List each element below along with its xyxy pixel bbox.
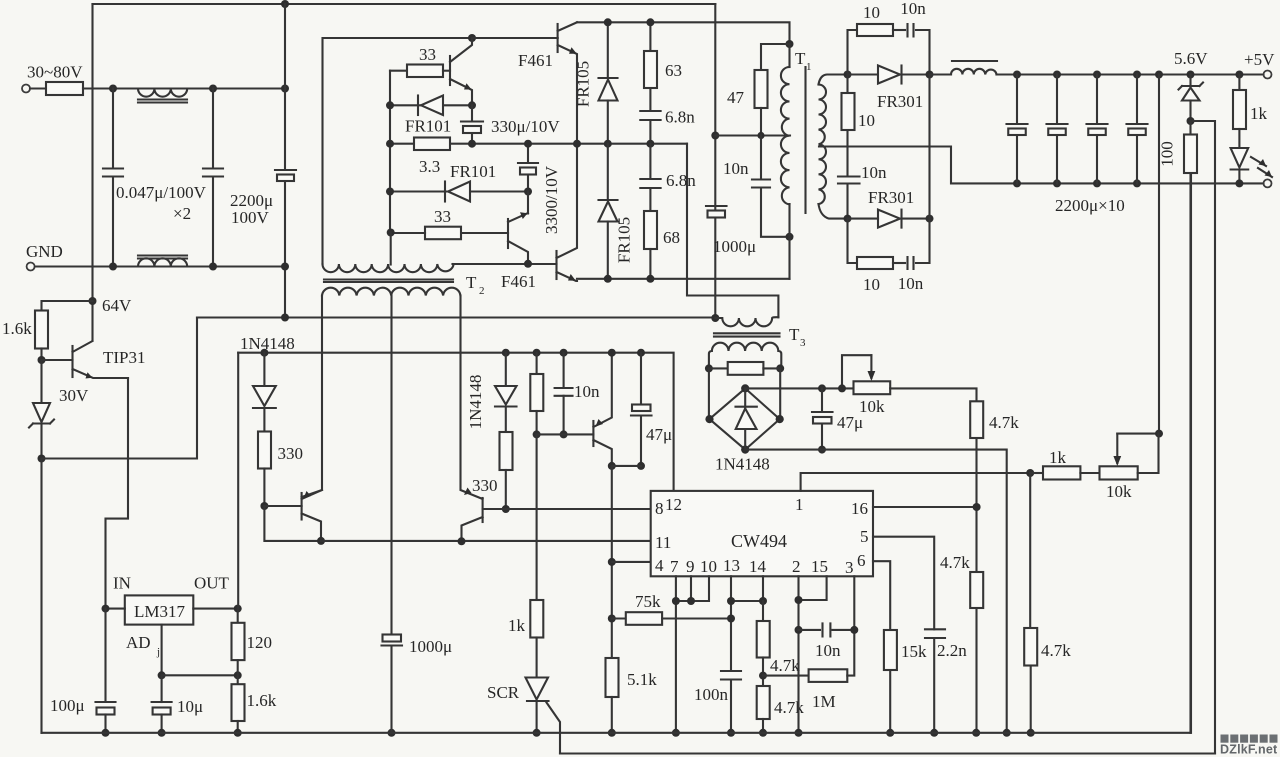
resistor 33 upper <box>390 70 407 72</box>
node pin4 tie <box>608 558 616 566</box>
transistor F461 lower <box>555 251 557 279</box>
transistor driver lower <box>508 192 528 223</box>
node pin1 / 1k <box>1026 469 1034 477</box>
svg-text:10n: 10n <box>900 0 926 18</box>
IC LM317 <box>125 595 194 624</box>
node 1M line <box>759 672 767 680</box>
svg-text:47: 47 <box>727 88 745 107</box>
wire lower rail y278.8 <box>577 278 790 280</box>
wire base line y434 <box>537 433 594 435</box>
snubber 10 + 10n bottom <box>848 219 858 263</box>
svg-text:100V: 100V <box>231 208 270 227</box>
node zener bottom <box>1187 117 1195 125</box>
svg-text:T: T <box>466 273 477 292</box>
capacitor 330u/10V <box>471 105 473 143</box>
wire primary ground line <box>197 316 716 318</box>
resistor 330 b <box>500 432 513 470</box>
svg-text:1000μ: 1000μ <box>713 237 756 256</box>
wire T2 sec right end down <box>461 296 483 500</box>
transistor PNP b <box>482 498 484 522</box>
svg-text:30~80V: 30~80V <box>27 63 83 82</box>
node PNP c collector <box>608 462 616 470</box>
transistor driver upper <box>449 56 451 85</box>
node half-bridge mid <box>573 140 581 148</box>
resistor input series <box>30 87 46 89</box>
transformer T2 core <box>324 280 453 283</box>
node 75k right <box>727 615 735 623</box>
resistor 68 <box>644 211 657 249</box>
svg-text:6: 6 <box>857 551 866 570</box>
capacitor 0.047u/100V a <box>112 89 114 267</box>
capacitor 10n primary <box>757 132 764 139</box>
svg-text:330: 330 <box>472 476 498 495</box>
wire T2 sec center down <box>390 296 392 636</box>
resistor 1k feedback <box>1030 472 1043 474</box>
wire pin8 line <box>483 508 651 510</box>
resistor 47 <box>761 44 790 70</box>
wire T1 sec center tap lead <box>819 147 1017 184</box>
svg-text:1.6k: 1.6k <box>247 691 277 710</box>
svg-text:6.8n: 6.8n <box>666 171 696 190</box>
svg-text:10n: 10n <box>815 641 841 660</box>
node rail 1000u2 <box>388 729 396 737</box>
node PNP a collector <box>317 537 325 545</box>
capacitor 100u <box>104 609 106 702</box>
svg-text:GND: GND <box>26 242 63 261</box>
svg-text:4.7k: 4.7k <box>774 698 804 717</box>
resistor 4.7k pin16 lower <box>970 572 983 608</box>
diode FR101 lower <box>390 190 528 192</box>
capacitor 2200u output x1017 <box>1013 71 1021 79</box>
node input rail x213 <box>209 85 217 93</box>
wire pin16 stub <box>873 506 977 508</box>
svg-text:10k: 10k <box>1106 482 1132 501</box>
node input rail x113 <box>109 85 117 93</box>
capacitor 2200u/100V <box>284 4 286 318</box>
svg-text:5.6V: 5.6V <box>1174 49 1208 68</box>
resistor 1.6k lower <box>232 684 245 721</box>
node input rail x285 <box>281 85 289 93</box>
svg-text:SCR: SCR <box>487 683 520 702</box>
bridge rectifier 1N4148 diamond <box>709 368 780 419</box>
node LM317 IN <box>102 605 110 613</box>
capacitor 10u <box>161 675 163 702</box>
svg-text:12: 12 <box>665 495 682 514</box>
wire 4.7k column x1030 <box>1029 473 1031 628</box>
svg-text:10μ: 10μ <box>177 697 203 716</box>
svg-text:5.1k: 5.1k <box>627 670 657 689</box>
node FR101/emitter <box>468 101 476 109</box>
transistor PNP a <box>264 505 301 507</box>
resistor 33 lower <box>425 227 461 240</box>
svg-text:1.6k: 1.6k <box>2 319 32 338</box>
svg-text:100μ: 100μ <box>50 696 85 715</box>
svg-text:FR101: FR101 <box>405 117 451 136</box>
wire pin11 line <box>321 540 651 542</box>
diode inside bridge <box>744 388 746 449</box>
capacitor 1000u <box>706 205 727 207</box>
capacitor 2.2n <box>925 629 945 638</box>
watermark <box>1221 735 1278 743</box>
node driver collector top <box>468 34 476 42</box>
svg-text:1k: 1k <box>1250 104 1268 123</box>
svg-text:2200μ×10: 2200μ×10 <box>1055 196 1125 215</box>
svg-text:+5V: +5V <box>1244 50 1275 69</box>
wire output return rail <box>1017 182 1264 184</box>
node PNP a base <box>260 502 268 510</box>
node 1N4148 b top <box>502 349 510 357</box>
wire pot A right to 4.7k column <box>890 388 976 401</box>
transformer T2 primary <box>323 264 454 272</box>
node 10n bottom <box>560 430 568 438</box>
diode FR101 upper <box>390 104 472 106</box>
node TIP31 base <box>38 356 46 364</box>
terminal input 30~80V <box>22 85 30 93</box>
svg-text:1k: 1k <box>1049 448 1067 467</box>
wire bridge top line y388.4 <box>745 387 853 389</box>
svg-text:100n: 100n <box>694 685 729 704</box>
diode 1N4148 a <box>263 353 265 386</box>
transistor TIP31 <box>42 359 73 361</box>
node x536 junction <box>533 430 541 438</box>
svg-text:1N4148: 1N4148 <box>240 334 295 353</box>
svg-text:33: 33 <box>419 45 436 64</box>
transformer T1 core <box>804 67 806 213</box>
resistor 1.6k <box>35 311 48 349</box>
node rectified bus top <box>926 71 934 79</box>
diode FR105 lower <box>607 144 609 200</box>
capacitor 3300/10V <box>527 144 529 192</box>
svg-text:10n: 10n <box>574 382 600 401</box>
diode FR105 upper <box>607 22 609 78</box>
svg-text:8: 8 <box>655 499 664 518</box>
node rail 5.1k <box>608 729 616 737</box>
svg-text:FR105: FR105 <box>574 61 593 107</box>
svg-text:4.7k: 4.7k <box>770 656 800 675</box>
SCR <box>526 678 549 700</box>
resistor 100 <box>1184 135 1197 174</box>
svg-text:14: 14 <box>749 557 767 576</box>
capacitor 100n <box>721 671 741 680</box>
node GND x285 <box>281 263 289 271</box>
node 64V <box>89 297 97 305</box>
svg-text:33: 33 <box>434 207 451 226</box>
diode 1N4148 b <box>505 353 507 386</box>
svg-text:0.047μ/100V: 0.047μ/100V <box>116 183 207 202</box>
wire zener node to SCR gate line <box>1191 121 1216 754</box>
node ADj junction <box>158 671 166 679</box>
svg-text:5: 5 <box>860 527 869 546</box>
svg-text:10n: 10n <box>861 163 887 182</box>
svg-text:1N4148: 1N4148 <box>466 375 485 430</box>
svg-text:LM317: LM317 <box>134 602 186 621</box>
svg-text:FR101: FR101 <box>450 162 496 181</box>
svg-text:T: T <box>789 325 800 344</box>
node sec top <box>844 71 852 79</box>
svg-text:1N4148: 1N4148 <box>715 455 770 474</box>
svg-text:3: 3 <box>800 337 806 349</box>
resistor 1M <box>763 675 809 677</box>
wire pins 13 14 join <box>730 576 732 733</box>
node zener bottom <box>38 455 46 463</box>
capacitor 0.047u/100V b <box>212 89 214 267</box>
node T1 center tap <box>711 132 719 140</box>
node T2 center tap top <box>387 229 395 237</box>
snubber 10 + 10n top <box>848 30 858 75</box>
capacitor 47u T3 <box>818 384 826 392</box>
inductor common-mode choke bottom winding <box>138 258 187 266</box>
transistor F461 upper <box>472 37 558 39</box>
svg-text:10n: 10n <box>898 274 924 293</box>
node 3300 bottom / FR101 <box>524 188 532 196</box>
capacitor 1000u T2ct <box>383 635 402 642</box>
svg-text:10: 10 <box>863 3 880 22</box>
terminal +5V <box>1264 71 1272 79</box>
capacitor 2200u output x1137 <box>1133 71 1141 79</box>
node T1 top <box>786 40 794 48</box>
svg-text:10: 10 <box>863 275 880 294</box>
svg-text:FR301: FR301 <box>868 188 914 207</box>
node mid rail x472 <box>468 140 476 148</box>
wire pins 2 15 join <box>797 576 799 733</box>
svg-text:F461: F461 <box>518 51 553 70</box>
svg-text:15: 15 <box>811 557 828 576</box>
capacitor 47u ctrl <box>637 349 645 357</box>
wire 64V to 1.6k <box>42 301 93 311</box>
svg-text:7: 7 <box>670 557 679 576</box>
terminal output return <box>1264 179 1272 187</box>
node 120/1.6k junction <box>234 671 242 679</box>
capacitor 2200u output x1097 <box>1093 71 1101 79</box>
svg-text:10: 10 <box>858 111 875 130</box>
wire ADj pin <box>161 625 163 676</box>
transformer T3 core <box>714 333 780 336</box>
svg-text:IN: IN <box>113 574 131 593</box>
wire left frame vertical 64V rail <box>91 4 93 340</box>
wire rectified bus vertical <box>928 75 930 219</box>
capacitor 2200u output x1057 <box>1053 71 1061 79</box>
capacitor 10n damper <box>846 130 848 219</box>
node rail 1.6k <box>234 729 242 737</box>
capacitor 10n pin2-3 <box>795 626 803 634</box>
transistor PNP c <box>592 421 594 446</box>
transformer T3 secondary <box>709 343 781 369</box>
svg-text:OUT: OUT <box>194 574 230 593</box>
svg-text:330μ/10V: 330μ/10V <box>491 117 560 136</box>
svg-text:1: 1 <box>806 61 812 73</box>
wire aux line to LM317 OUT <box>237 353 239 609</box>
svg-text:CW494: CW494 <box>731 531 787 551</box>
wire T2 primary right line to F461 base <box>453 263 557 265</box>
wire driver frame <box>323 38 558 264</box>
wire left column to bottom rail <box>40 459 42 733</box>
capacitor 10n ctrl <box>560 349 568 357</box>
svg-text:1: 1 <box>795 495 804 514</box>
resistor 4.7k upper right <box>970 401 983 438</box>
svg-text:j: j <box>156 646 160 658</box>
node pin16 / 4.7k <box>973 503 981 511</box>
terminal GND <box>27 263 35 271</box>
resistor 75k <box>612 617 626 619</box>
wire pin6 stub to 15k <box>873 561 890 630</box>
svg-text:10k: 10k <box>859 397 885 416</box>
inductor output <box>930 73 952 75</box>
node GND x213 <box>209 263 217 271</box>
wire pins 7 9 10 join <box>675 576 677 733</box>
resistor unlabeled x536.6 <box>533 349 541 357</box>
svg-text:30V: 30V <box>59 386 89 405</box>
svg-text:TIP31: TIP31 <box>103 348 146 367</box>
node T3 sec right <box>776 364 784 372</box>
svg-text:AD: AD <box>126 633 151 652</box>
svg-text:FR105: FR105 <box>615 217 634 263</box>
inductor common-mode choke top winding <box>138 89 187 97</box>
wire switch-node top line y22.3 <box>577 22 790 44</box>
node T3 sec left <box>705 364 713 372</box>
wire base-collector tie <box>264 506 321 541</box>
svg-text:10n: 10n <box>723 159 749 178</box>
node rectified bus bottom <box>926 215 934 223</box>
wire T1 sec bottom lead <box>819 204 848 219</box>
potentiometer 10k B <box>1100 466 1138 479</box>
zener 30V <box>40 360 42 403</box>
resistor 63 <box>649 22 651 51</box>
svg-text:47μ: 47μ <box>646 425 672 444</box>
svg-text:75k: 75k <box>635 592 661 611</box>
svg-text:2: 2 <box>792 557 801 576</box>
node T3 primary left / ground end <box>711 314 719 322</box>
wire TIP31 emitter path to LM317 IN <box>106 378 129 609</box>
svg-text:2.2n: 2.2n <box>937 641 967 660</box>
svg-text:4: 4 <box>655 556 664 575</box>
transformer T1 primary winding <box>788 44 790 67</box>
transformer T3 primary <box>715 317 778 326</box>
wire pin1 stub <box>801 473 1031 491</box>
svg-text:4.7k: 4.7k <box>989 413 1019 432</box>
svg-text:64V: 64V <box>102 296 132 315</box>
svg-text:4.7k: 4.7k <box>1041 641 1071 660</box>
resistor 120 <box>237 609 239 623</box>
node PNP b base <box>502 505 510 513</box>
wire pin3 stub <box>853 576 855 630</box>
wire pin5 stub to 2.2n <box>873 537 934 733</box>
wire aux supply line y352.7 <box>238 353 673 491</box>
node top rail corner <box>93 3 716 5</box>
node ground line x285 <box>281 314 289 322</box>
svg-text:2: 2 <box>479 285 485 297</box>
wire mid rail to T3 jog <box>687 144 778 318</box>
svg-text:100: 100 <box>1158 141 1177 167</box>
resistor 4.7k pin14 upper <box>762 601 764 621</box>
transformer T2 secondary <box>322 288 460 296</box>
resistor 1k SCR <box>530 600 543 638</box>
svg-text:T: T <box>795 49 806 68</box>
svg-text:68: 68 <box>663 228 680 247</box>
svg-text:13: 13 <box>723 556 740 575</box>
svg-text:F461: F461 <box>501 272 536 291</box>
transformer T1 secondary winding <box>819 85 827 205</box>
svg-text:11: 11 <box>655 533 671 552</box>
diode FR301 lower <box>878 210 900 228</box>
svg-text:3.3: 3.3 <box>419 157 440 176</box>
node LM317 OUT <box>234 605 242 613</box>
node 75k left <box>608 615 616 623</box>
svg-text:1M: 1M <box>812 692 836 711</box>
wire x612 column down <box>611 466 613 658</box>
wire T2 sec left end down <box>302 296 322 498</box>
svg-text:120: 120 <box>247 633 273 652</box>
node on top rail <box>281 0 289 8</box>
wire pin4 line <box>612 561 651 563</box>
svg-text:FR301: FR301 <box>877 92 923 111</box>
svg-text:1k: 1k <box>508 616 526 635</box>
svg-text:3300/10V: 3300/10V <box>542 165 561 234</box>
node sec bottom <box>844 215 852 223</box>
wire bridge bottom line y449.6 <box>745 450 1007 733</box>
wire GND rail <box>35 265 285 267</box>
wire 5V sense vertical <box>1155 71 1163 79</box>
wire left rail x390 <box>389 71 391 233</box>
svg-text:3: 3 <box>845 558 854 577</box>
svg-text:16: 16 <box>851 499 868 518</box>
wire T1 bottom to lower rail <box>788 204 790 279</box>
zener 5.6V <box>1187 71 1195 79</box>
wire +in column x716 <box>714 4 716 318</box>
svg-text:6.8n: 6.8n <box>665 108 695 127</box>
resistor 3.3 <box>414 138 450 151</box>
svg-text:4.7k: 4.7k <box>940 553 970 572</box>
wire T1 sec top lead <box>819 75 848 85</box>
wire zener node to primary ground line <box>42 318 198 459</box>
wire center tap line <box>715 134 790 136</box>
svg-text:15k: 15k <box>901 642 927 661</box>
wire 1k-SCR column from x536 node <box>536 434 538 600</box>
resistor 4.7k pin14 lower <box>757 686 770 719</box>
capacitor 6.8n lower <box>649 144 651 211</box>
svg-text:63: 63 <box>665 61 682 80</box>
capacitor 6.8n upper <box>649 88 651 144</box>
wire outer bottom line <box>560 752 1215 754</box>
resistor 15k <box>884 630 897 670</box>
node GND x113 <box>109 263 117 271</box>
svg-text:1000μ: 1000μ <box>409 637 452 656</box>
svg-text:10: 10 <box>700 557 717 576</box>
potentiometer 10k A <box>854 381 891 394</box>
IC CW494 <box>651 491 873 576</box>
LED <box>1231 148 1249 168</box>
node 1N4148 a top <box>260 349 268 357</box>
svg-text:DZlkF.net: DZlkF.net <box>1220 743 1278 757</box>
wire main bottom rail <box>42 173 1192 733</box>
node PNP b collector <box>458 537 466 545</box>
svg-text:9: 9 <box>686 557 695 576</box>
resistor 4.7k x1030 <box>1024 628 1037 666</box>
node 47u bottom <box>637 462 645 470</box>
wire +5V rail <box>997 73 1264 75</box>
svg-text:330: 330 <box>278 444 304 463</box>
diode FR301 upper <box>848 73 879 75</box>
resistor damper T3 <box>709 367 728 369</box>
node rail LM317 in <box>102 729 110 737</box>
resistor 10 damper <box>846 75 848 94</box>
node rail 10u <box>158 729 166 737</box>
resistor 5.1k <box>606 658 619 697</box>
resistor 1k output <box>1235 71 1243 79</box>
wire mid rail <box>390 143 687 145</box>
resistor 330 a <box>258 432 271 469</box>
node lower driver collector on base line <box>524 260 532 268</box>
node T1 bottom <box>786 233 794 241</box>
